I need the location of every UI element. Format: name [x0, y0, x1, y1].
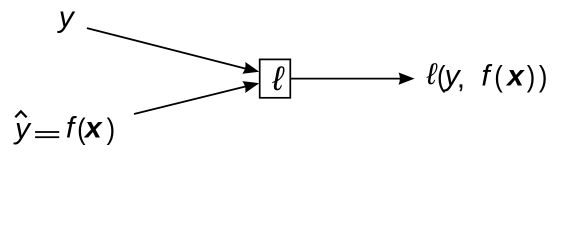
output label: ell	[426, 58, 438, 91]
output label: bold x	[505, 60, 525, 93]
node yhat label: hat accent	[15, 111, 26, 117]
output label: second )	[539, 60, 548, 93]
svg-text:f: f	[481, 60, 492, 93]
node yhat label: y of yhat	[13, 113, 32, 146]
output label: y	[443, 60, 462, 93]
svg-text:(: (	[494, 60, 503, 93]
svg-text:x: x	[505, 60, 525, 93]
node yhat label: f	[66, 112, 77, 145]
svg-text:f: f	[66, 112, 77, 145]
arrowhead bottom input	[242, 77, 260, 93]
output label: (	[437, 60, 446, 93]
wire y to loss box	[87, 28, 249, 69]
svg-text:): )	[107, 112, 116, 145]
wire loss output	[291, 78, 401, 80]
node yhat label: )	[107, 112, 116, 145]
svg-text:): )	[527, 60, 536, 93]
output label: )	[527, 60, 536, 93]
arrowhead top input	[242, 62, 261, 78]
node yhat label: bold x	[83, 112, 103, 145]
output label: (	[494, 60, 503, 93]
svg-text:x: x	[83, 112, 103, 145]
loss box	[260, 59, 291, 97]
svg-text:,: ,	[457, 62, 465, 95]
arrowhead output	[399, 73, 415, 85]
output label: f	[481, 60, 492, 93]
equals sign (drawn)	[35, 131, 59, 138]
wire yhat to loss box	[134, 86, 249, 114]
svg-text:ℓ: ℓ	[271, 60, 285, 98]
svg-text:): )	[539, 60, 548, 93]
svg-text:y: y	[57, 1, 76, 34]
node yhat label: (	[77, 112, 86, 145]
loss box ell symbol	[271, 60, 285, 98]
output label: comma	[457, 62, 465, 95]
node y label	[57, 1, 76, 34]
svg-text:ℓ: ℓ	[426, 58, 438, 91]
